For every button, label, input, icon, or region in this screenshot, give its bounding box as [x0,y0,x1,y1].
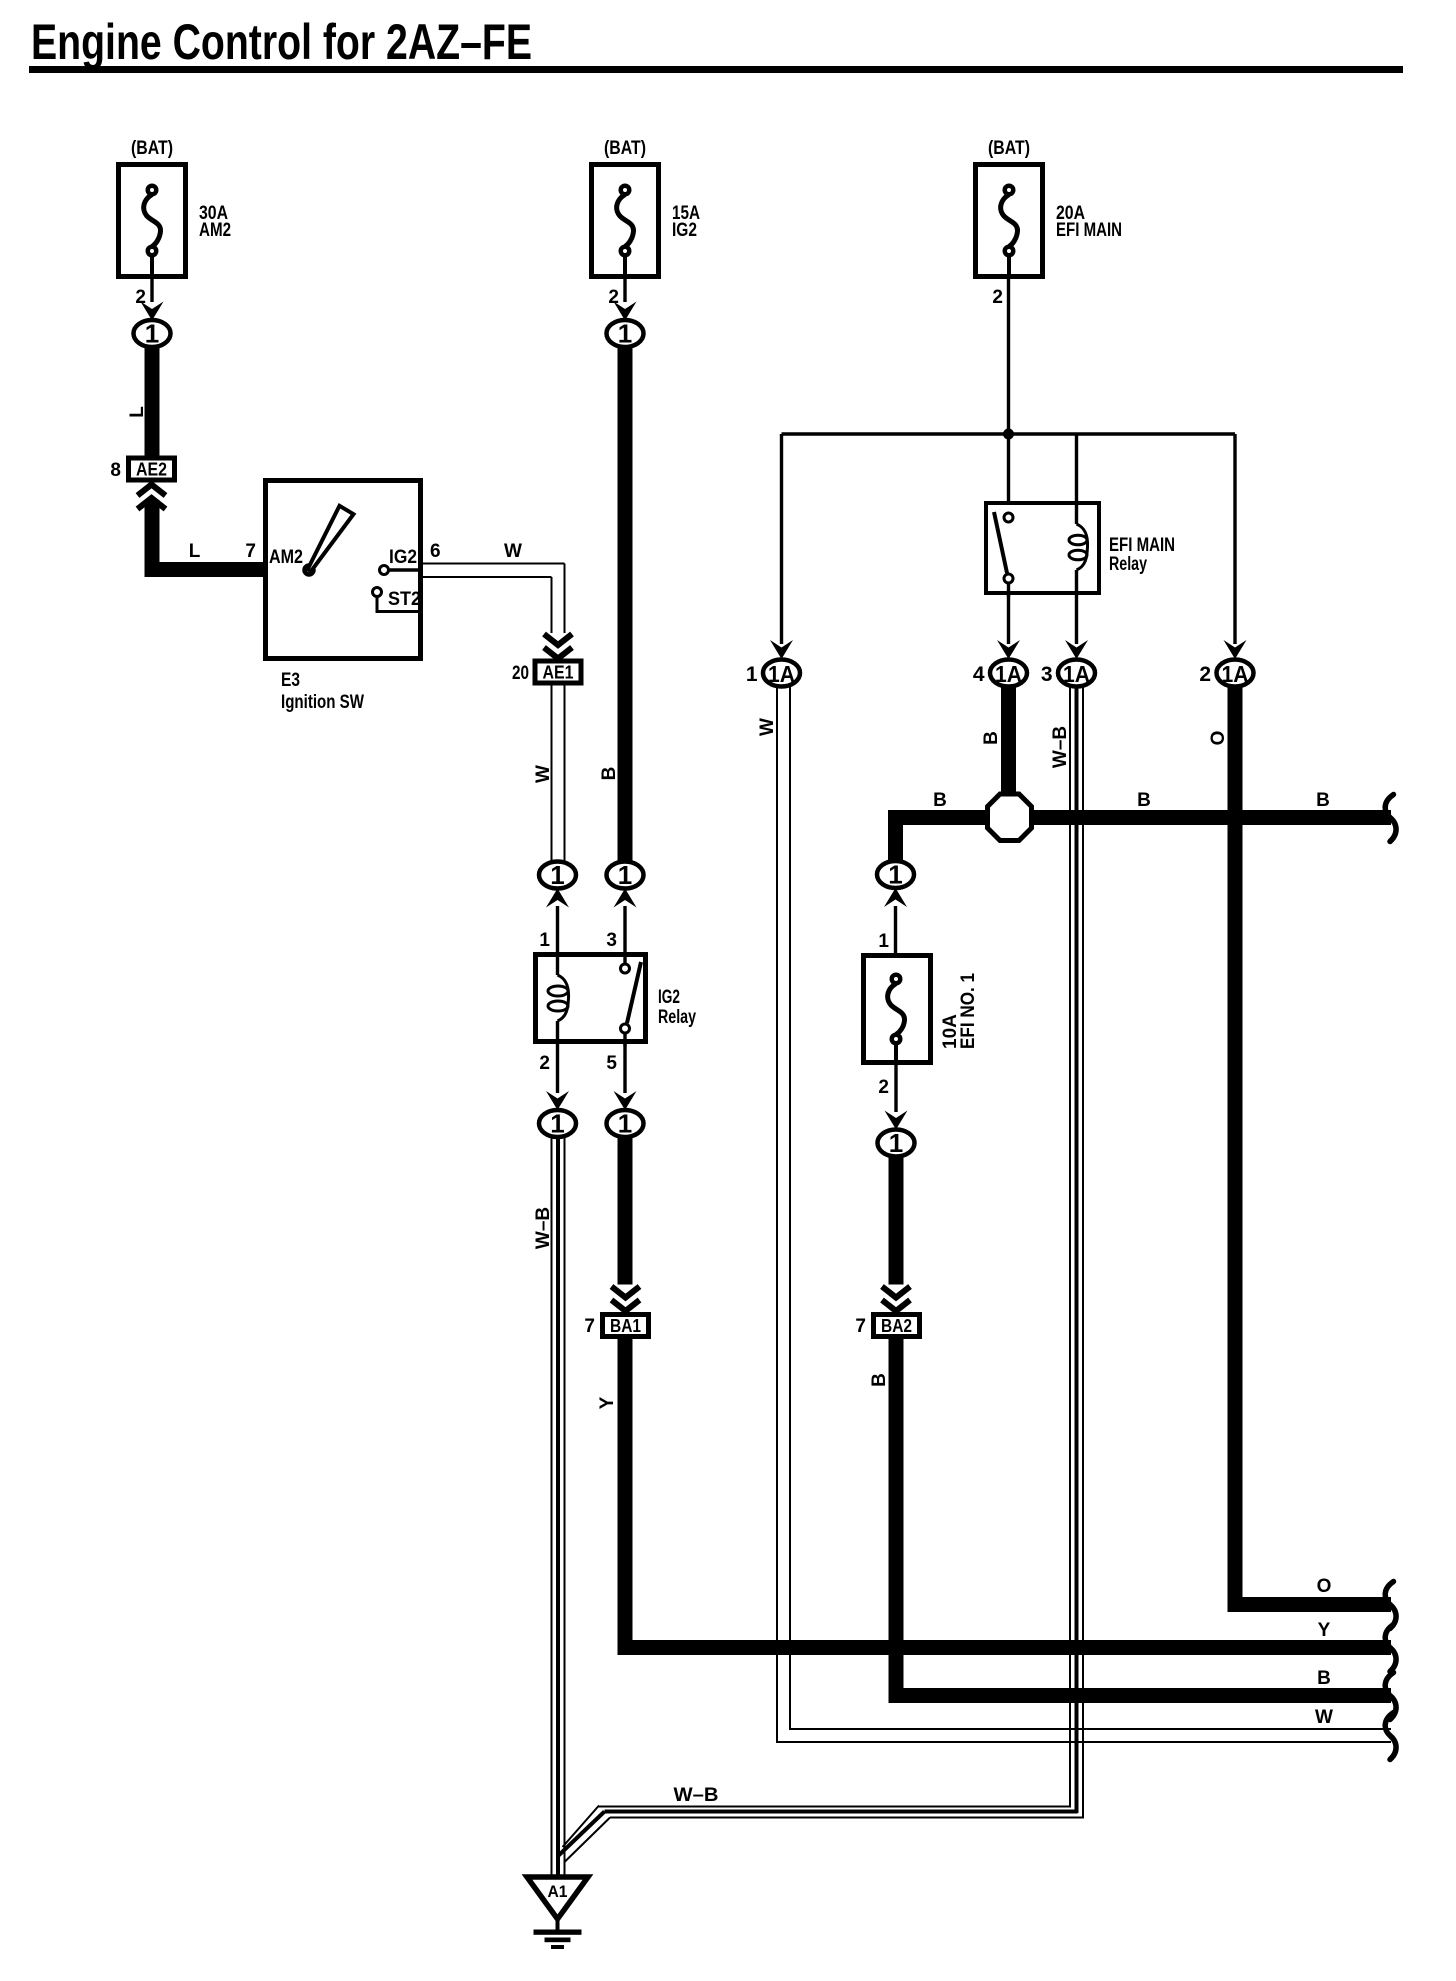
svg-text:1: 1 [145,319,159,349]
svg-text:1: 1 [878,931,889,952]
svg-text:L: L [127,406,148,418]
svg-text:(BAT): (BAT) [988,138,1030,159]
svg-text:W: W [1315,1707,1333,1728]
svg-text:1: 1 [618,1109,632,1139]
svg-text:1A: 1A [1063,661,1090,687]
svg-text:BA1: BA1 [610,1316,641,1336]
svg-text:A1: A1 [548,1882,568,1901]
svg-text:1: 1 [618,319,632,349]
svg-text:BA2: BA2 [881,1316,912,1336]
svg-text:B: B [981,731,1002,745]
svg-text:2: 2 [539,1053,550,1074]
svg-text:Ignition SW: Ignition SW [281,692,364,713]
svg-text:B: B [1317,1668,1331,1689]
svg-text:8: 8 [110,460,121,481]
svg-text:B: B [933,790,947,811]
svg-text:6: 6 [430,541,441,562]
svg-text:W: W [533,765,554,783]
svg-text:20: 20 [512,663,529,684]
svg-text:AM2: AM2 [199,220,231,241]
svg-text:1: 1 [746,663,758,686]
svg-text:(BAT): (BAT) [131,138,173,159]
svg-text:EFI MAIN: EFI MAIN [1056,220,1122,241]
svg-text:B: B [599,767,620,781]
svg-text:IG2: IG2 [672,220,697,241]
svg-text:W–B: W–B [533,1207,554,1249]
svg-text:EFI MAIN: EFI MAIN [1109,535,1175,556]
svg-text:7: 7 [855,1316,866,1337]
svg-text:IG2: IG2 [389,547,417,568]
svg-text:EFI NO. 1: EFI NO. 1 [958,973,979,1049]
svg-text:1: 1 [550,1109,564,1139]
svg-text:Relay: Relay [1109,554,1147,575]
svg-text:Relay: Relay [658,1007,696,1028]
svg-text:W: W [757,718,778,736]
svg-text:W: W [504,541,522,562]
svg-text:AE1: AE1 [543,663,574,683]
svg-text:AE2: AE2 [136,460,167,480]
svg-text:Y: Y [597,1396,618,1409]
svg-text:4: 4 [973,663,985,686]
svg-text:7: 7 [584,1316,595,1337]
svg-text:O: O [1208,731,1229,746]
svg-text:B: B [1316,790,1330,811]
svg-text:1A: 1A [768,661,795,687]
svg-text:7: 7 [245,541,256,562]
svg-text:L: L [189,541,201,562]
svg-text:ST2: ST2 [388,589,421,610]
svg-text:B: B [1137,790,1151,811]
svg-text:O: O [1317,1576,1332,1597]
svg-text:2: 2 [878,1077,889,1098]
svg-text:Engine Control for 2AZ–FE: Engine Control for 2AZ–FE [31,14,532,70]
svg-text:IG2: IG2 [658,987,680,1008]
svg-text:W–B: W–B [674,1785,719,1806]
svg-text:1: 1 [888,860,902,890]
svg-text:2: 2 [992,287,1003,308]
svg-text:2: 2 [1199,663,1211,686]
svg-text:Y: Y [1318,1620,1331,1641]
svg-text:(BAT): (BAT) [604,138,646,159]
svg-text:1: 1 [539,930,550,951]
svg-text:5: 5 [606,1053,617,1074]
svg-text:W–B: W–B [1050,726,1071,768]
svg-text:3: 3 [606,930,617,951]
svg-text:1: 1 [550,860,564,890]
svg-text:1A: 1A [1222,661,1249,687]
svg-text:1: 1 [618,860,632,890]
svg-text:3: 3 [1041,663,1053,686]
svg-text:1: 1 [889,1128,903,1158]
svg-text:1A: 1A [995,661,1022,687]
svg-text:E3: E3 [281,670,300,691]
svg-text:AM2: AM2 [269,547,303,568]
svg-text:B: B [869,1373,890,1387]
